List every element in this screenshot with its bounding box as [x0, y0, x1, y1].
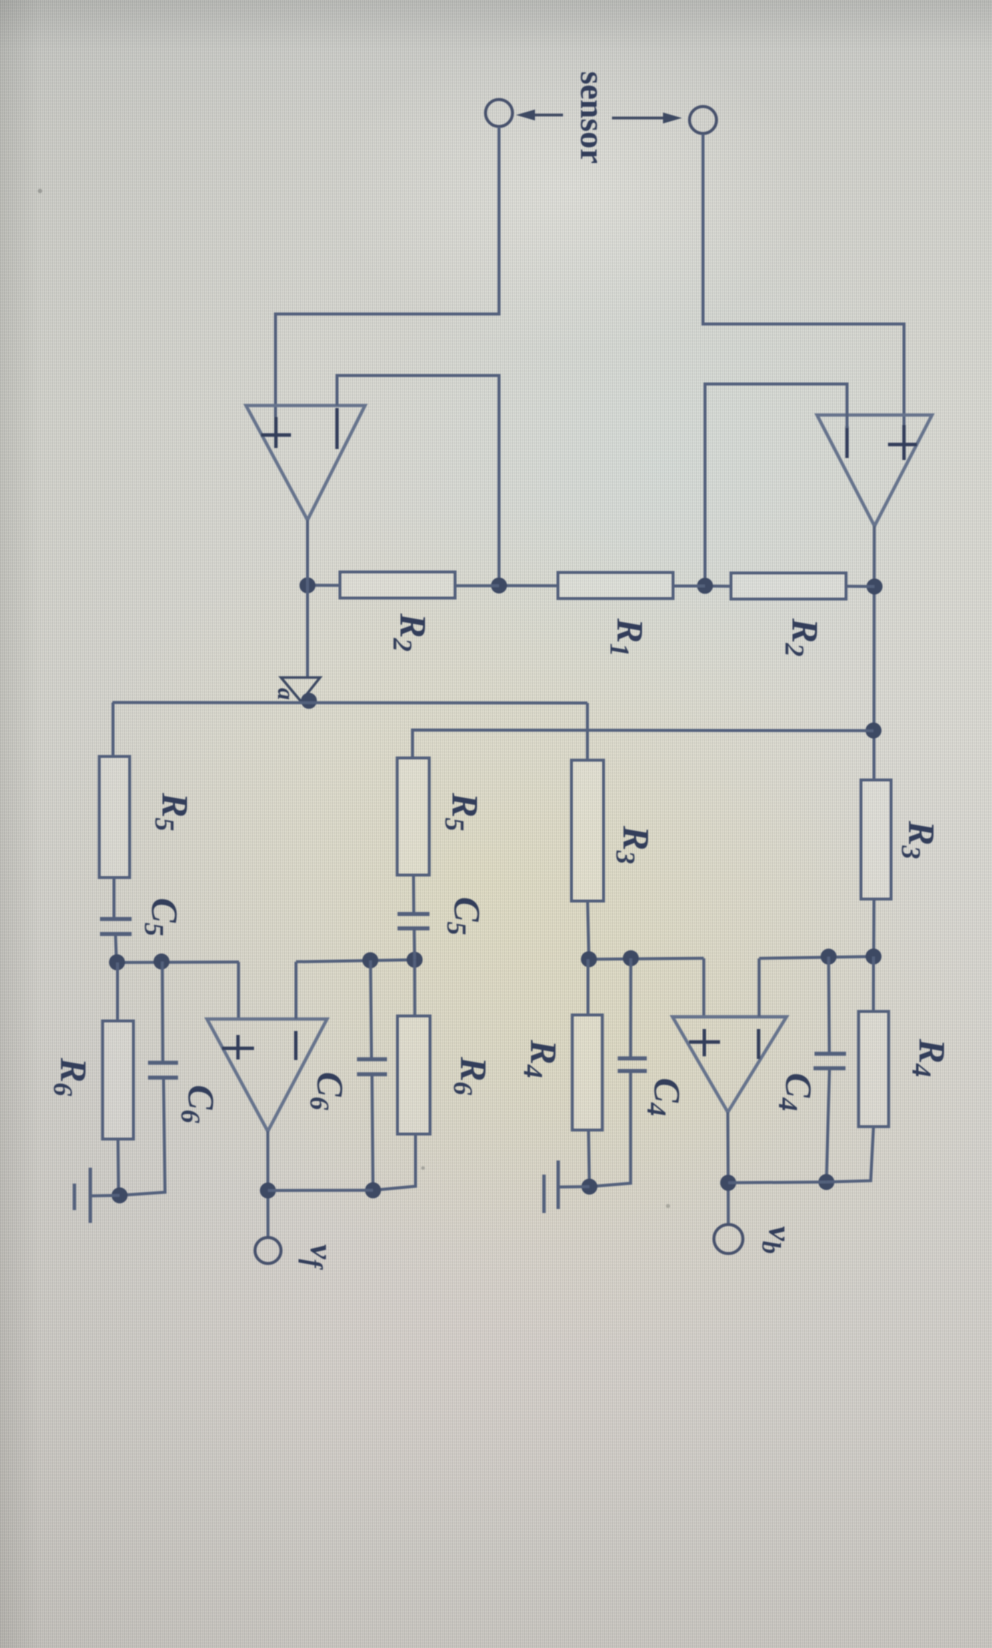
node a junction: [301, 693, 317, 709]
wire U4 output: [726, 1112, 730, 1224]
speck: [38, 189, 42, 193]
resistor R3 (left): [572, 760, 604, 901]
node U1 output at R3/R5 branch: [866, 723, 882, 739]
svg-text:R6: R6: [448, 1056, 493, 1096]
junction R3R/R4R: [866, 949, 882, 965]
op-amp U2: [246, 406, 365, 521]
wire U3 output: [266, 1131, 269, 1237]
wire U4 output to feedback: [728, 1181, 826, 1185]
wire U1 output to R3 right: [873, 779, 876, 783]
svg-text:C5: C5: [442, 897, 487, 935]
wire node-a left branch down to R5 left: [112, 703, 115, 757]
wire R2 lower leads: [455, 584, 499, 587]
minus symbol U1: [845, 426, 848, 458]
wire R1 leads: [673, 585, 705, 588]
wire R6 right upper lead: [413, 960, 416, 1016]
wire lower sensor to op-amp U2 + input: [276, 127, 500, 417]
minus symbol U3: [294, 1031, 297, 1060]
capacitor C4 (left): [618, 1056, 647, 1060]
svg-text:R4: R4: [907, 1038, 952, 1077]
wire R4 right upper lead: [872, 957, 875, 1012]
wire R5 left to C5 left: [113, 878, 116, 920]
junction C5R/R6R: [407, 952, 423, 968]
wire R4 right to U4 output: [826, 1127, 873, 1182]
resistor R1: [558, 573, 673, 599]
node U4 output: [720, 1175, 736, 1191]
svg-text:vb: vb: [757, 1226, 798, 1254]
node3 row (filter node of Vf output buffer): [116, 961, 239, 965]
arrow to lower sensor terminal: [528, 114, 563, 117]
resistor R5 (left): [99, 757, 129, 878]
run-U2 row (U4 + input node): [589, 957, 704, 961]
svg-text:a: a: [272, 688, 298, 700]
terminal vb: [714, 1225, 743, 1254]
run-B row (U4 - node): [759, 957, 873, 959]
resistor R6 (right): [398, 1016, 431, 1134]
svg-text:C4: C4: [773, 1073, 818, 1111]
op-amp U1: [817, 415, 932, 526]
speck: [666, 1204, 670, 1208]
capacitor C6 (left): [148, 1061, 178, 1065]
node gain chain / U2 feedback: [491, 578, 507, 594]
filter row to U3 minus (run-L2): [296, 960, 415, 962]
svg-text:C6: C6: [305, 1072, 350, 1111]
svg-text:R5: R5: [150, 792, 195, 831]
resistor R3 (right): [861, 780, 891, 899]
arrow marker node a: [281, 678, 320, 702]
junction C4L: [623, 950, 639, 966]
plus symbol U2: [274, 417, 277, 448]
wire U4 - input from run-B: [758, 958, 761, 1016]
svg-text:R5: R5: [440, 792, 485, 831]
ground symbol right: [559, 1185, 590, 1188]
plus symbol U4: [703, 1029, 706, 1056]
node gain chain / U1 feedback: [697, 578, 713, 594]
wire R3 right to run-B node: [872, 899, 875, 957]
junction R3L/R4L: [581, 951, 597, 967]
wire C4 right lower lead to U4 output: [826, 1068, 829, 1182]
junction C6 right top: [362, 952, 378, 968]
svg-text:C4: C4: [642, 1078, 687, 1116]
minus symbol U4: [757, 1029, 760, 1059]
wire U1 - input feedback from node between R2 and R1: [705, 384, 847, 586]
wire C4 right upper lead: [827, 957, 831, 1054]
svg-text:R2: R2: [388, 612, 433, 651]
op-amp U4: [673, 1017, 787, 1112]
terminal sensor lower (left in image): [486, 100, 513, 127]
wire B U1 output branch to R5 right: [413, 730, 874, 758]
wire U2 output to node a: [306, 520, 309, 678]
wire upper sensor to op-amp U1 + input: [703, 134, 904, 428]
wire node3 down to R6 left: [116, 963, 119, 1022]
svg-text:C6: C6: [176, 1085, 221, 1124]
capacitor C5 (left): [100, 917, 132, 921]
node U3 output: [260, 1183, 276, 1199]
wire R3 left to run-U2 node: [588, 901, 589, 959]
capacitor C4 (right): [815, 1052, 847, 1056]
wire run-U2 to op-amp U4 + input: [702, 958, 705, 1017]
wire U1 output: [873, 526, 876, 780]
wire U3 - input from filter node row: [295, 962, 298, 1019]
resistor R5 (right): [397, 758, 429, 875]
wire R4 left upper lead: [587, 959, 590, 1015]
node3 junction C6L: [154, 954, 170, 970]
capacitor C5 (right): [398, 912, 430, 916]
wire U2 - input feedback from node between R1 and R2: [337, 376, 499, 586]
svg-text:C5: C5: [139, 898, 184, 936]
wire R6 left to ground: [117, 1139, 121, 1196]
resistor R4 (left): [572, 1015, 602, 1130]
resistor R2 (upper): [731, 573, 846, 599]
wire C4 left lower lead to ground: [589, 1071, 630, 1187]
ground symbol left: [91, 1194, 120, 1198]
wire C6 right lower lead to U3 output: [372, 1074, 373, 1190]
svg-text:R3: R3: [611, 825, 656, 864]
terminal vf: [255, 1238, 281, 1264]
wire R4 left to ground: [587, 1130, 591, 1187]
op-amp U3: [207, 1019, 327, 1131]
svg-text:R4: R4: [518, 1039, 563, 1078]
capacitor C6 (right): [357, 1057, 387, 1061]
junction C4R at U4 output: [818, 1174, 834, 1190]
minus symbol U2: [335, 408, 338, 449]
ground left junction: [112, 1187, 128, 1203]
wire C5 left to node3: [116, 934, 117, 963]
wire node3 to op-amp U3 + input: [237, 962, 240, 1019]
resistor R4 (right): [859, 1012, 889, 1127]
wire U3 output to feedback rail: [268, 1189, 373, 1192]
wire C6 left to ground: [120, 1078, 165, 1196]
wire C5 right to run-L2 node: [413, 928, 416, 959]
wire C6 left upper lead: [161, 962, 165, 1063]
svg-text:R3: R3: [896, 820, 941, 859]
resistor R2 (lower): [340, 572, 455, 598]
wire C6 right upper lead: [371, 960, 372, 1059]
wire C4 left upper lead: [629, 958, 632, 1058]
wire A node-a horizontal rail: [113, 701, 588, 705]
plus symbol U1: [902, 425, 905, 460]
plus symbol U3: [236, 1035, 239, 1060]
wire node-a rail to R3 left: [586, 703, 589, 760]
wire R2 upper to node: [846, 585, 875, 588]
ground right junction: [581, 1179, 597, 1195]
svg-text:R6: R6: [48, 1057, 93, 1097]
wire R6 right to U3 output feedback: [373, 1134, 416, 1190]
arrow to upper sensor terminal: [612, 117, 668, 120]
svg-text:R1: R1: [605, 617, 650, 656]
svg-text:sensor: sensor: [573, 71, 610, 164]
node3 junction C5L/R6L: [109, 954, 125, 970]
node U2 output at gain chain: [300, 577, 316, 593]
speck: [421, 1166, 425, 1170]
resistor R6 (left): [103, 1021, 134, 1139]
wire R5 right to C5 right: [412, 875, 415, 914]
node U1 output at gain chain: [867, 579, 883, 595]
terminal sensor upper (right in image): [690, 107, 717, 134]
svg-text:R2: R2: [780, 617, 825, 656]
junction U3 feedback: [365, 1182, 381, 1198]
junction C4R top: [821, 949, 837, 965]
svg-text:vf: vf: [298, 1244, 339, 1270]
